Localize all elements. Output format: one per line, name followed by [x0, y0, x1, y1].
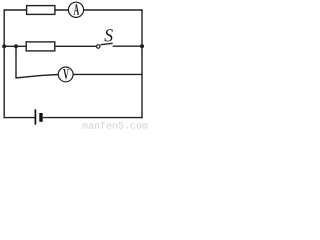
wire voltmeter branch vertical	[15, 46, 17, 77]
watermark manfen5.com	[82, 121, 147, 128]
battery long plate	[34, 109, 36, 124]
ammeter label A	[74, 4, 80, 14]
wire top horizontal	[4, 9, 69, 11]
node junction right of switch wire	[140, 44, 144, 48]
ammeter U1 circle	[68, 2, 83, 17]
wire right vertical	[141, 9, 143, 118]
node junction left of middle wire	[2, 44, 6, 48]
node junction voltmeter tap	[14, 44, 18, 48]
switch S blade	[101, 43, 113, 44]
wire bottom horizontal	[4, 117, 35, 119]
resistor R1	[27, 6, 55, 15]
wire voltmeter branch horizontal right	[73, 73, 143, 75]
wire left vertical	[3, 9, 5, 118]
wire middle horizontal	[4, 45, 97, 47]
voltmeter U2 circle	[58, 67, 73, 82]
switch label S	[104, 29, 112, 41]
wire voltmeter branch horizontal left	[15, 75, 58, 79]
battery short thick plate	[39, 113, 42, 122]
resistor R2	[26, 42, 55, 51]
voltmeter label V	[63, 69, 69, 79]
switch S pivot circle	[96, 45, 100, 49]
